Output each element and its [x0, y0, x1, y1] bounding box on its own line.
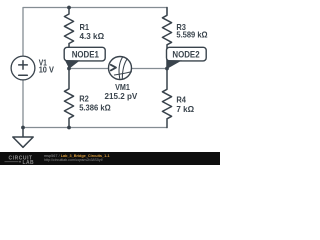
- wire bottom: [23, 127, 167, 129]
- node NODE1 flag: [64, 47, 105, 69]
- labels: [39, 22, 208, 114]
- node NODE2 junction: [165, 67, 169, 71]
- node ground junction: [21, 126, 25, 130]
- wire middle right: [132, 68, 168, 70]
- resistor R4: [162, 69, 171, 128]
- junction dots: [21, 6, 169, 130]
- svg-text:5.589 kΩ: 5.589 kΩ: [176, 30, 207, 40]
- CircuitLab logo: [5, 156, 34, 166]
- footer text: [44, 154, 110, 162]
- ground: [13, 128, 33, 148]
- svg-text:4.3 kΩ: 4.3 kΩ: [80, 31, 105, 41]
- svg-text:5.386 kΩ: 5.386 kΩ: [79, 103, 111, 113]
- resistor R2: [64, 69, 73, 128]
- voltmeter VM1: [109, 57, 132, 80]
- node NODE2 flag: [167, 47, 207, 69]
- svg-text:NODE1: NODE1: [72, 49, 99, 59]
- node bottom junction R2: [67, 126, 71, 130]
- svg-text:NODE2: NODE2: [172, 49, 199, 59]
- voltage source V1: [11, 56, 35, 80]
- node NODE1 junction: [67, 67, 71, 71]
- svg-text:http://circuitlab.com/cqnsm2b3: http://circuitlab.com/cqnsm2b38S5yf/: [44, 158, 103, 162]
- svg-text:R4: R4: [176, 95, 186, 105]
- footer bar: [0, 152, 220, 165]
- svg-text:215.2 pV: 215.2 pV: [105, 91, 138, 101]
- node top junction: [67, 6, 71, 10]
- resistor R3: [162, 8, 171, 69]
- svg-text:7 kΩ: 7 kΩ: [176, 104, 194, 114]
- svg-text:10 V: 10 V: [39, 64, 54, 74]
- wire middle left: [69, 68, 109, 70]
- svg-text:LAB: LAB: [23, 160, 34, 165]
- wire top: [23, 8, 167, 57]
- wire left bottom: [22, 80, 24, 128]
- resistor R1: [64, 8, 73, 69]
